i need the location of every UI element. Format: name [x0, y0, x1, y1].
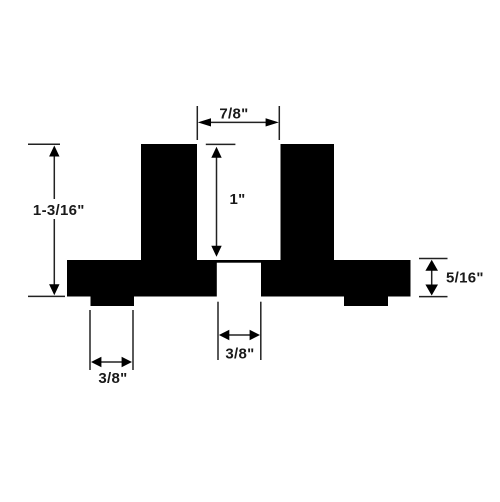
svg-text:7/8": 7/8": [219, 106, 248, 123]
svg-text:1-3/16": 1-3/16": [33, 202, 85, 219]
svg-text:3/8": 3/8": [225, 346, 254, 363]
svg-text:1": 1": [229, 191, 245, 208]
svg-text:5/16": 5/16": [446, 270, 484, 287]
svg-text:3/8": 3/8": [98, 370, 127, 387]
